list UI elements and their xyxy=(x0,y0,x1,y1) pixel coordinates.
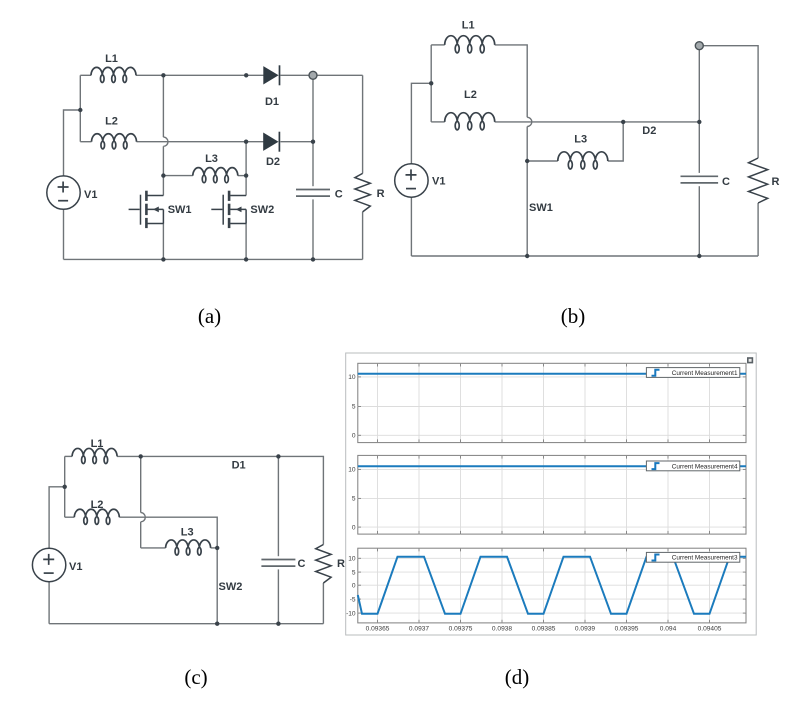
svg-text:D1: D1 xyxy=(265,96,279,108)
svg-text:(b): (b) xyxy=(561,304,586,328)
svg-text:(a): (a) xyxy=(198,304,221,328)
svg-text:L2: L2 xyxy=(464,89,477,101)
svg-text:V1: V1 xyxy=(84,189,97,201)
svg-text:0: 0 xyxy=(352,433,356,440)
svg-text:0: 0 xyxy=(352,582,356,589)
svg-text:SW2: SW2 xyxy=(219,581,243,593)
svg-text:10: 10 xyxy=(348,374,356,381)
svg-text:0.09405: 0.09405 xyxy=(698,626,722,633)
svg-text:C: C xyxy=(298,558,306,570)
svg-text:0.09365: 0.09365 xyxy=(366,626,390,633)
svg-text:SW2: SW2 xyxy=(250,204,274,216)
svg-text:SW1: SW1 xyxy=(529,202,553,214)
svg-text:0.094: 0.094 xyxy=(660,626,677,633)
svg-text:0.09375: 0.09375 xyxy=(449,626,473,633)
svg-text:L3: L3 xyxy=(205,153,218,165)
svg-text:L2: L2 xyxy=(105,116,118,128)
svg-text:R: R xyxy=(377,188,385,200)
svg-text:C: C xyxy=(722,176,730,188)
svg-text:(d): (d) xyxy=(505,665,530,689)
svg-text:0.09395: 0.09395 xyxy=(615,626,639,633)
svg-text:5: 5 xyxy=(352,569,356,576)
svg-text:10: 10 xyxy=(348,467,356,474)
svg-text:10: 10 xyxy=(348,556,356,563)
svg-text:V1: V1 xyxy=(69,561,82,573)
svg-text:-10: -10 xyxy=(346,610,356,617)
svg-text:0.0937: 0.0937 xyxy=(409,626,430,633)
svg-text:SW1: SW1 xyxy=(168,204,192,216)
svg-text:Current Measurement1: Current Measurement1 xyxy=(672,370,738,377)
svg-text:C: C xyxy=(335,189,343,201)
svg-text:0: 0 xyxy=(352,524,356,531)
svg-text:-5: -5 xyxy=(350,596,356,603)
svg-text:5: 5 xyxy=(352,404,356,411)
svg-text:0.09385: 0.09385 xyxy=(532,626,556,633)
svg-text:L1: L1 xyxy=(105,53,118,65)
svg-text:D2: D2 xyxy=(642,125,656,137)
svg-text:L2: L2 xyxy=(91,499,104,511)
svg-text:L3: L3 xyxy=(181,527,194,539)
svg-text:D2: D2 xyxy=(266,156,280,168)
svg-text:Current Measurement4: Current Measurement4 xyxy=(672,463,738,470)
svg-text:R: R xyxy=(337,558,345,570)
svg-text:L1: L1 xyxy=(462,20,475,32)
svg-text:(c): (c) xyxy=(184,665,207,689)
svg-text:0.0938: 0.0938 xyxy=(492,626,513,633)
svg-text:0.0939: 0.0939 xyxy=(575,626,596,633)
svg-text:5: 5 xyxy=(352,496,356,503)
svg-text:V1: V1 xyxy=(432,176,445,188)
svg-text:L3: L3 xyxy=(574,133,587,145)
svg-text:Current Measurement3: Current Measurement3 xyxy=(672,555,738,562)
svg-text:D1: D1 xyxy=(232,459,246,471)
svg-text:R: R xyxy=(772,176,780,188)
svg-text:L1: L1 xyxy=(91,438,104,450)
